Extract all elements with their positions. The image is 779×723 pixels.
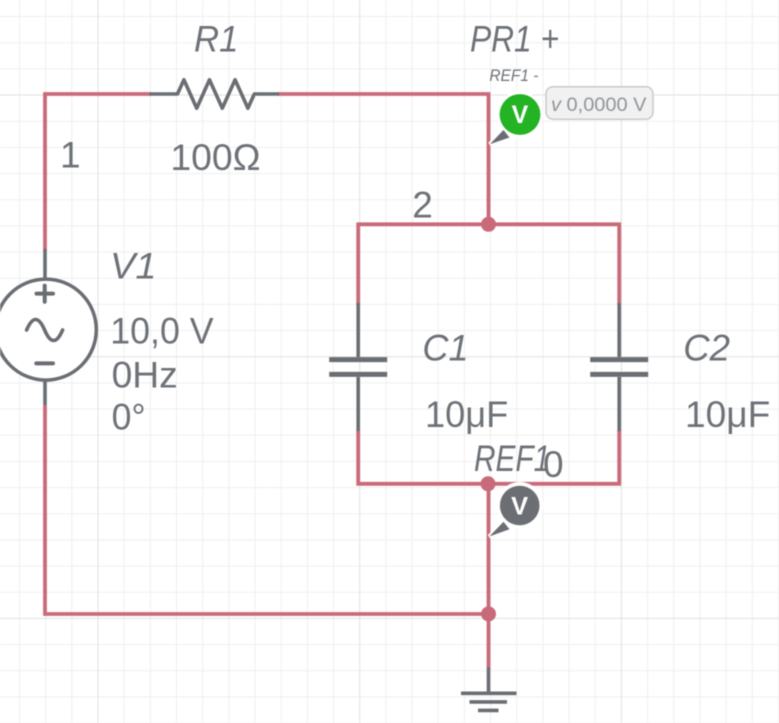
- junction ground net: [481, 606, 496, 621]
- probe REF1: [489, 482, 543, 537]
- voltage source V1: [0, 249, 96, 405]
- svg-text:v 0,0000 V: v 0,0000 V: [551, 95, 647, 116]
- svg-text:V1: V1: [110, 245, 157, 286]
- wire ground net: V1 minus down, bottom horizontal, to ground: [45, 405, 489, 668]
- svg-text:0Hz: 0Hz: [112, 354, 178, 395]
- junction node 2: [481, 217, 496, 232]
- svg-text:REF1 -: REF1 -: [489, 67, 538, 85]
- svg-text:V: V: [512, 101, 529, 129]
- tooltip v 0,0000 V: [546, 87, 653, 120]
- svg-text:R1: R1: [194, 18, 238, 59]
- wire node 2 horizontal: C1 top to C2 top: [358, 224, 619, 305]
- svg-text:2: 2: [412, 184, 433, 225]
- svg-text:PR1 +: PR1 +: [470, 19, 559, 60]
- svg-text:0: 0: [543, 444, 564, 485]
- junction REF1 node: [481, 476, 496, 491]
- svg-text:REF1: REF1: [474, 438, 550, 479]
- resistor R1: [150, 80, 280, 108]
- svg-text:10,0 V: 10,0 V: [110, 311, 214, 352]
- ground: [461, 668, 517, 711]
- wire REF1 stub: node REF1 down to bottom wire: [487, 484, 491, 614]
- svg-text:10μF: 10μF: [685, 394, 770, 435]
- svg-text:C2: C2: [683, 328, 730, 369]
- svg-text:0°: 0°: [112, 397, 146, 438]
- capacitor C2: [590, 303, 648, 431]
- wire net 1: V1 plus up, top horizontal to R1 and node 2: [45, 94, 489, 250]
- probe PR1: [490, 92, 543, 145]
- svg-text:100Ω: 100Ω: [170, 137, 260, 178]
- wire bottom of capacitor rectangle: C1 bottom to C2 bottom: [358, 430, 619, 484]
- svg-text:1: 1: [60, 134, 81, 175]
- svg-text:10μF: 10μF: [425, 394, 508, 435]
- capacitor C1: [329, 303, 387, 431]
- svg-text:V: V: [511, 493, 528, 521]
- svg-text:C1: C1: [422, 328, 468, 369]
